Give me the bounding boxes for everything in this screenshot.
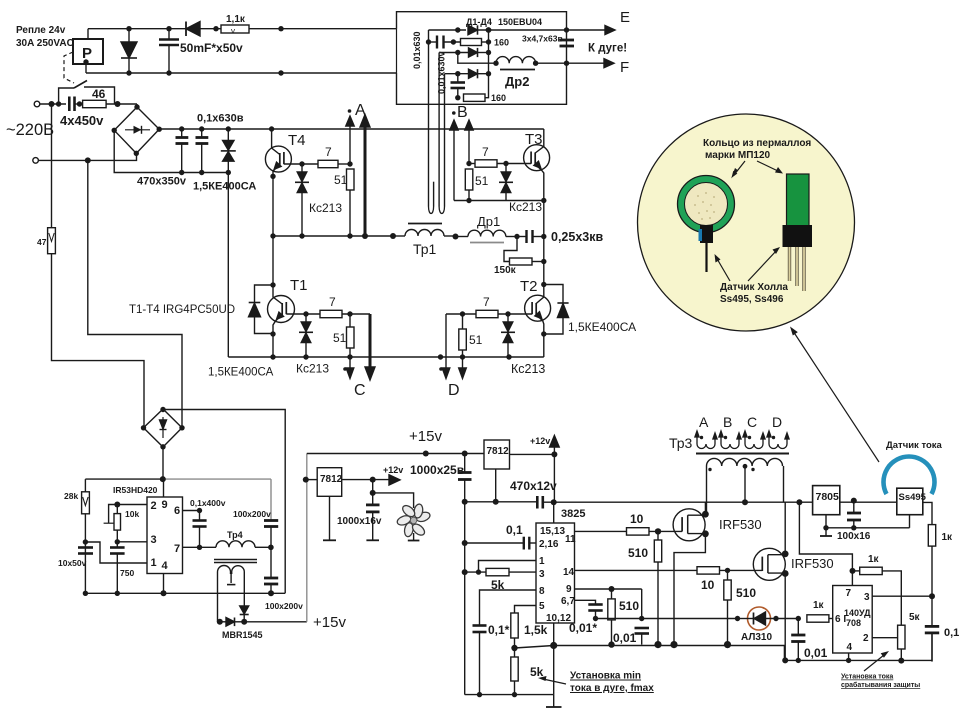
main + rail y=128.8 bbox=[159, 128, 544, 130]
svg-text:11: 11 bbox=[565, 534, 576, 545]
svg-text:Ss495: Ss495 bbox=[899, 492, 927, 503]
svg-text:D: D bbox=[772, 414, 782, 430]
svg-text:5к: 5к bbox=[909, 612, 921, 623]
pin3 wire bbox=[117, 541, 147, 543]
resistor 7 (T3) bbox=[475, 160, 497, 167]
arrow to 5к pot bbox=[864, 655, 884, 671]
inner bus to Др2 bbox=[458, 53, 496, 64]
svg-text:Репле 24v: Репле 24v bbox=[16, 25, 66, 36]
svg-text:1000x25в: 1000x25в bbox=[410, 463, 464, 477]
svg-text:0,1*: 0,1* bbox=[488, 623, 510, 637]
resistor 51 (T3) bbox=[465, 169, 473, 190]
resistor 1к #2 bbox=[860, 567, 883, 574]
7805 ground + 100x16 bbox=[825, 515, 827, 528]
wire T4 gate bbox=[284, 163, 318, 165]
dashed link relay to switch bbox=[64, 52, 74, 83]
pin 6,7 wire + capacitor 0,01* bbox=[575, 600, 596, 604]
svg-text:50mF*x50v: 50mF*x50v bbox=[180, 41, 243, 55]
svg-text:F: F bbox=[620, 59, 629, 76]
pin 9 wire bbox=[575, 588, 642, 590]
resistor 1к right column bbox=[928, 525, 935, 547]
zener pair Кс213 (T2) bbox=[507, 314, 509, 322]
label Установка min тока в дуге, fmax bbox=[570, 671, 654, 695]
wire to bridge top bbox=[136, 104, 138, 107]
node row1 bus bbox=[429, 29, 467, 31]
Ss495 output bbox=[923, 502, 932, 524]
svg-text:В: В bbox=[457, 104, 468, 121]
wire rail2 bbox=[86, 72, 397, 74]
capacitor 1000x16v bbox=[372, 480, 374, 505]
T3/T2 collector bus down bbox=[543, 201, 545, 285]
svg-text:46: 46 bbox=[92, 87, 106, 101]
svg-text:510: 510 bbox=[619, 599, 639, 613]
svg-text:14: 14 bbox=[563, 567, 575, 578]
capacitor 750 bbox=[110, 546, 125, 549]
wire rail1 top bbox=[88, 28, 397, 30]
pin 15,13 wire bbox=[553, 502, 555, 523]
capacitor 100x200v lower bbox=[270, 547, 272, 577]
svg-text:9: 9 bbox=[566, 584, 572, 595]
bottom rail of 3825 bbox=[465, 694, 554, 696]
hall sensor on ring bbox=[700, 225, 713, 243]
svg-text:1к: 1к bbox=[813, 600, 825, 611]
transformer Tp4 primary bbox=[216, 541, 255, 547]
bottom rail B bbox=[784, 633, 932, 661]
capacitor 10x50v bbox=[78, 546, 93, 549]
svg-text:Датчик Холла: Датчик Холла bbox=[720, 282, 788, 293]
label relay "Репле 24v 30A 250VAC" bbox=[16, 25, 74, 49]
svg-text:1,1к: 1,1к bbox=[226, 14, 246, 25]
svg-text:100x200v: 100x200v bbox=[265, 601, 303, 611]
capacitor 470x12v (series) bbox=[536, 496, 539, 509]
wire to fan bbox=[373, 493, 414, 508]
IR53 bottom rail bbox=[85, 592, 285, 594]
capacitor 3x4,7x63в on right edge bbox=[560, 39, 575, 42]
svg-text:2: 2 bbox=[863, 633, 869, 644]
diode Д2 bbox=[469, 48, 478, 57]
resistor 7 (T1) bbox=[320, 310, 342, 317]
pin2 wire + pot 10k bbox=[117, 504, 147, 506]
resistor 510 #3 bbox=[727, 570, 729, 580]
svg-text:Кс213: Кс213 bbox=[509, 200, 542, 214]
svg-text:марки МП120: марки МП120 bbox=[705, 150, 771, 161]
transistor IRF530 #2 bbox=[753, 548, 785, 580]
transformer Tp4 secondary bbox=[218, 566, 231, 622]
svg-text:0,1: 0,1 bbox=[506, 523, 523, 537]
capacitor 0,25x3кв bbox=[517, 236, 526, 238]
svg-text:АЛ310: АЛ310 bbox=[741, 632, 772, 643]
svg-text:0,01x630: 0,01x630 bbox=[412, 31, 422, 69]
svg-text:Установка тока: Установка тока bbox=[841, 674, 893, 681]
svg-text:51: 51 bbox=[469, 333, 483, 347]
pin 14 wire bbox=[575, 569, 698, 571]
svg-text:0,25x3кв: 0,25x3кв bbox=[551, 230, 603, 244]
svg-text:510: 510 bbox=[628, 546, 648, 560]
svg-text:MBR1545: MBR1545 bbox=[222, 630, 263, 640]
svg-text:7: 7 bbox=[483, 295, 490, 309]
svg-text:51: 51 bbox=[475, 174, 489, 188]
bottom rail (minus bus) bbox=[228, 356, 544, 358]
svg-text:15,13: 15,13 bbox=[540, 526, 565, 537]
resistor 160 row2 bbox=[461, 39, 482, 46]
capacitor 100x16 bbox=[851, 498, 857, 504]
svg-text:0,01: 0,01 bbox=[613, 631, 637, 645]
resistor 10 #2 bbox=[697, 567, 720, 574]
svg-text:Т2: Т2 bbox=[520, 278, 538, 295]
switch S1 bypass bbox=[59, 88, 74, 104]
svg-text:7: 7 bbox=[846, 588, 852, 599]
svg-text:+15v: +15v bbox=[409, 428, 442, 445]
diode D relay flyback bbox=[128, 29, 130, 42]
arrow to ring lead bbox=[716, 257, 730, 281]
transistor T2 (IGBT) bbox=[525, 295, 551, 321]
svg-text:708: 708 bbox=[846, 618, 861, 628]
resistor 1,1к (varistor box) bbox=[221, 25, 249, 33]
svg-text:6,7: 6,7 bbox=[561, 596, 575, 607]
TVS 1,5KE400CA input bbox=[227, 129, 229, 141]
bridge rectifier VD1 (diamond) bbox=[114, 107, 159, 153]
node B arrows bbox=[452, 111, 456, 115]
svg-text:0,01: 0,01 bbox=[804, 646, 828, 660]
arrow to 5k bbox=[543, 679, 566, 684]
svg-text:10: 10 bbox=[701, 578, 715, 592]
mid rail upper-left (T4 emitter bus) bbox=[273, 235, 393, 237]
svg-text:7812: 7812 bbox=[320, 474, 343, 485]
label Д1-Д4 150EBU04 bbox=[466, 17, 542, 27]
capacitor 50mF*x50v bbox=[168, 29, 170, 40]
Тр3 secondary winding C bbox=[745, 434, 763, 449]
svg-text:150EBU04: 150EBU04 bbox=[498, 17, 542, 27]
+12 rail bbox=[465, 501, 536, 503]
wire pin9 down bbox=[641, 589, 643, 619]
svg-text:D: D bbox=[448, 382, 460, 399]
label Кольцо из пермаллоя марки МП120 bbox=[703, 138, 811, 161]
big callout circle (permalloy ring + hall sensor) bbox=[638, 114, 855, 331]
svg-text:7: 7 bbox=[482, 145, 489, 159]
svg-text:7: 7 bbox=[329, 295, 336, 309]
arrow to ring bbox=[734, 161, 745, 175]
ground bbox=[553, 695, 555, 707]
wire bridge2 bottom to IR53 rail bbox=[162, 447, 164, 479]
transistor IRF530 #1 bbox=[673, 509, 705, 541]
svg-text:Тр3: Тр3 bbox=[669, 435, 693, 451]
svg-text:Установка min: Установка min bbox=[570, 671, 641, 682]
svg-text:10k: 10k bbox=[125, 509, 139, 519]
node D arrows bbox=[445, 314, 447, 371]
node A thin arrow bbox=[349, 123, 351, 164]
output F arrow bbox=[567, 62, 605, 64]
label Датчик Холла Ss495, Ss496 bbox=[720, 282, 788, 305]
svg-text:1,5КЕ400СА: 1,5КЕ400СА bbox=[208, 367, 274, 379]
node row4 bbox=[445, 73, 469, 75]
svg-text:3: 3 bbox=[864, 592, 870, 603]
label Установка тока срабатывания защиты bbox=[841, 674, 920, 690]
svg-text:28k: 28k bbox=[64, 491, 78, 501]
arrow to green stick bbox=[757, 161, 780, 172]
svg-text:~220В: ~220В bbox=[6, 121, 54, 139]
svg-text:B: B bbox=[723, 414, 732, 430]
regulator 7812 #1 bbox=[317, 468, 342, 497]
pin 4 wire down bbox=[848, 653, 850, 660]
svg-text:1000x16v: 1000x16v bbox=[337, 516, 382, 527]
svg-text:100x16: 100x16 bbox=[837, 531, 871, 542]
capacitor 470x350v #1 bbox=[181, 129, 183, 138]
svg-text:2: 2 bbox=[151, 500, 157, 512]
svg-text:Тр1: Тр1 bbox=[413, 241, 437, 257]
svg-text:10x50v: 10x50v bbox=[58, 558, 87, 568]
svg-text:Кольцо из пермаллоя: Кольцо из пермаллоя bbox=[703, 138, 811, 149]
sensor Ss495 box bbox=[897, 488, 923, 515]
node row3 bbox=[439, 52, 468, 54]
output E arrow bbox=[567, 29, 606, 31]
svg-text:+12v: +12v bbox=[530, 436, 550, 446]
resistor 47 bbox=[48, 228, 56, 254]
svg-text:К дуге!: К дуге! bbox=[588, 43, 627, 55]
resistor 51 (T1) bbox=[347, 327, 355, 348]
bottom rail A bbox=[554, 646, 785, 661]
bridge rectifier VD2 small bbox=[144, 409, 183, 447]
capacitor 470x350v #2 bbox=[201, 129, 203, 138]
T3 gate network: rail bbox=[454, 200, 544, 202]
resistor 5k lower bbox=[511, 657, 518, 681]
diode vertical (Tp4) bbox=[240, 606, 249, 614]
regulator 7812 #2 bbox=[484, 440, 510, 469]
right bus bbox=[488, 30, 490, 74]
transformer Тр1 primary winding bbox=[393, 235, 405, 237]
svg-text:1,5k: 1,5k bbox=[524, 623, 548, 637]
+12v output arrow bbox=[342, 479, 390, 481]
Тр3 secondary winding A bbox=[697, 434, 715, 449]
fan bbox=[396, 503, 431, 537]
svg-text:10: 10 bbox=[630, 512, 644, 526]
svg-text:1к: 1к bbox=[868, 554, 880, 565]
minus bus down the left bbox=[227, 173, 229, 358]
minus rail below bridge bbox=[114, 130, 228, 172]
svg-text:10,12: 10,12 bbox=[546, 613, 571, 624]
svg-text:47: 47 bbox=[37, 237, 47, 247]
LED АЛ310 bbox=[748, 607, 771, 630]
inductor Др1 bbox=[456, 236, 469, 238]
wire 220V line1 down bbox=[51, 104, 53, 228]
pin9 wire up bbox=[163, 479, 165, 497]
svg-text:750: 750 bbox=[120, 568, 134, 578]
svg-text:E: E bbox=[620, 9, 630, 26]
+15v wire from MBR bbox=[244, 621, 307, 623]
zener pair Кс213 (T3) bbox=[505, 164, 507, 173]
svg-text:3x4,7x63в: 3x4,7x63в bbox=[522, 34, 563, 44]
pin 11 wire + resistor 10 bbox=[575, 530, 627, 532]
svg-text:5k: 5k bbox=[530, 665, 544, 679]
svg-text:6: 6 bbox=[174, 505, 180, 517]
wire to LED row bbox=[596, 618, 738, 620]
zener pair Кс213 (T1) bbox=[305, 314, 307, 322]
svg-text:v: v bbox=[231, 27, 235, 36]
svg-text:1,5КЕ400СА: 1,5КЕ400СА bbox=[193, 181, 256, 193]
IRF530#1 source wire bbox=[674, 534, 705, 645]
capacitor 0,01 #2 bbox=[797, 619, 799, 635]
TVS 1,5KE400CA (T2) bbox=[544, 285, 563, 304]
pin 10,12 down bbox=[553, 623, 555, 695]
svg-text:150к: 150к bbox=[494, 265, 517, 276]
resistor 7 (T2) bbox=[476, 310, 498, 317]
pin 8 wire + capacitor 0,1* bbox=[480, 590, 537, 626]
svg-text:3: 3 bbox=[151, 534, 157, 546]
svg-text:51: 51 bbox=[334, 173, 348, 187]
capacitor 4x450v bbox=[68, 97, 71, 112]
svg-text:IRF530: IRF530 bbox=[719, 517, 762, 532]
wire relay top to rail1 bbox=[87, 29, 89, 39]
arrow to package bbox=[748, 250, 777, 281]
resistor 510 #2 bbox=[611, 589, 613, 599]
long arrow from sensor area to circle bbox=[793, 331, 879, 462]
resistor 51 (T4) bbox=[347, 169, 355, 190]
7812#1 ground bbox=[329, 496, 331, 540]
svg-text:1: 1 bbox=[151, 557, 157, 569]
svg-text:Т4: Т4 bbox=[288, 132, 306, 149]
svg-text:0,1x400v: 0,1x400v bbox=[190, 498, 226, 508]
svg-text:4x450v: 4x450v bbox=[60, 113, 104, 128]
Тр3 secondary winding D bbox=[769, 434, 787, 449]
resistor 1,5k bbox=[511, 613, 518, 638]
svg-text:+15v: +15v bbox=[313, 614, 346, 631]
pin 1 wire bbox=[479, 561, 537, 573]
op-amp 140УД708 box bbox=[833, 586, 873, 654]
capacitor 1000x25в bbox=[464, 454, 466, 473]
svg-text:140УД: 140УД bbox=[844, 608, 871, 618]
svg-text:Др2: Др2 bbox=[505, 74, 529, 89]
wire 220V line2 down bbox=[88, 160, 182, 427]
green stick (sensor in package) bbox=[787, 174, 810, 242]
transistor T3 (IGBT) bbox=[524, 145, 550, 171]
svg-text:51: 51 bbox=[333, 331, 347, 345]
node C thick arrow bbox=[369, 314, 372, 370]
relay K1 box P bbox=[73, 39, 103, 64]
svg-text:3825: 3825 bbox=[561, 508, 585, 520]
Тр3 primary bbox=[707, 458, 783, 466]
svg-text:Др1: Др1 bbox=[477, 214, 500, 229]
svg-text:срабатывания защиты: срабатывания защиты bbox=[841, 681, 920, 689]
pin 2,16 wire + capacitor 0,1 bbox=[530, 542, 537, 544]
transistor T1 (IGBT) bbox=[268, 296, 295, 323]
svg-text:100x200v: 100x200v bbox=[233, 509, 271, 519]
svg-text:470x350v: 470x350v bbox=[137, 176, 187, 188]
svg-text:+12v: +12v bbox=[383, 465, 403, 475]
Тр3 secondary winding B bbox=[721, 434, 739, 449]
svg-text:Кс213: Кс213 bbox=[511, 362, 545, 376]
svg-text:30A 250VAC: 30A 250VAC bbox=[16, 38, 74, 49]
diode Д3 bbox=[469, 69, 478, 78]
diode D2 series (cathode left) bbox=[186, 28, 200, 30]
terminal lower bbox=[33, 158, 39, 164]
wire down to +12 rail bbox=[553, 454, 555, 502]
wire bridge2 plus to right bbox=[163, 410, 285, 594]
+15v rail bbox=[307, 453, 484, 455]
svg-text:IR53HD420: IR53HD420 bbox=[113, 485, 158, 495]
pin 5 wire bbox=[515, 606, 537, 614]
diode Д1 bbox=[468, 25, 478, 34]
svg-text:160: 160 bbox=[494, 38, 509, 48]
resistor 46 bbox=[83, 100, 107, 107]
Тр3 primary left lead to IRF1 drain bbox=[706, 466, 708, 514]
svg-text:160: 160 bbox=[491, 93, 506, 103]
svg-text:Датчик тока: Датчик тока bbox=[886, 440, 943, 451]
T1 gate wire bbox=[286, 313, 320, 315]
svg-text:3: 3 bbox=[539, 569, 545, 580]
pin 3 wire bbox=[872, 595, 932, 597]
svg-text:7: 7 bbox=[174, 543, 180, 555]
pin7 wire bbox=[183, 546, 217, 548]
svg-text:1,5КЕ400СА: 1,5КЕ400СА bbox=[568, 320, 636, 334]
capacitor 0,01x630 row2 bbox=[429, 41, 438, 43]
pin4 wire down bbox=[163, 574, 165, 594]
svg-text:470x12v: 470x12v bbox=[510, 479, 557, 493]
svg-text:0,1x630в: 0,1x630в bbox=[197, 113, 244, 125]
resistor 5к bbox=[898, 625, 905, 649]
svg-text:Ss495, Ss496: Ss495, Ss496 bbox=[720, 294, 784, 305]
IRF530#2 drain/source vertical bbox=[784, 502, 786, 554]
wire 1,5k junction to pin10,12 node bbox=[515, 646, 554, 649]
svg-text:0,1: 0,1 bbox=[944, 627, 959, 639]
T2 gate network bbox=[446, 313, 476, 315]
terminal upper bbox=[34, 101, 40, 107]
pin 7 wire up + wire from +12 rail to pin7/1к bbox=[799, 502, 852, 585]
Тр3 core bbox=[696, 453, 789, 455]
svg-text:7812: 7812 bbox=[487, 446, 510, 457]
TVS 1,5KE400CA (T1) bbox=[255, 285, 274, 302]
svg-text:Т1-Т4 IRG4PC50UD: Т1-Т4 IRG4PC50UD bbox=[129, 304, 235, 316]
wire 28k junction to pin1 bbox=[85, 542, 147, 563]
svg-text:5: 5 bbox=[539, 601, 545, 612]
svg-text:P: P bbox=[82, 45, 92, 62]
permalloy ring (green donut) bbox=[678, 176, 735, 233]
svg-text:510: 510 bbox=[736, 586, 756, 600]
IR53 top rail bbox=[85, 478, 163, 480]
svg-text:7: 7 bbox=[325, 145, 332, 159]
svg-text:9: 9 bbox=[162, 499, 168, 511]
svg-text:8: 8 bbox=[539, 586, 545, 597]
chip IR53HD420 bbox=[147, 497, 183, 574]
resistor 7 (T4) bbox=[318, 160, 338, 167]
resistor 160 bottom bbox=[464, 94, 486, 101]
node A thick arrow bbox=[364, 124, 367, 236]
svg-text:С: С bbox=[354, 382, 366, 399]
zener pair Кс213 (T4) bbox=[301, 164, 303, 172]
svg-text:Кс213: Кс213 bbox=[309, 201, 342, 215]
svg-text:Т3: Т3 bbox=[525, 131, 543, 148]
svg-text:1к: 1к bbox=[942, 532, 954, 543]
Ss495 ground wire bbox=[909, 515, 911, 528]
pin6 wire + capacitor 0,1x400v bbox=[183, 511, 200, 521]
svg-text:7805: 7805 bbox=[816, 491, 840, 503]
svg-text:2,16: 2,16 bbox=[539, 539, 559, 550]
pin 2 wire bbox=[872, 637, 897, 639]
resistor 51 (T2) bbox=[459, 329, 467, 350]
svg-text:C: C bbox=[747, 414, 757, 430]
Тр3 right lead to IRF2 drain bbox=[783, 466, 785, 502]
capacitor row4-5 bbox=[457, 74, 459, 82]
svg-text:4: 4 bbox=[847, 642, 853, 653]
regulator 7805 bbox=[813, 486, 840, 515]
capacitor 100x200v upper bbox=[270, 479, 272, 520]
node C thin arrow bbox=[349, 357, 351, 371]
svg-text:IRF530: IRF530 bbox=[791, 556, 834, 571]
inductor Др2 bbox=[496, 57, 536, 64]
transformer primary hairpin legs bbox=[428, 30, 430, 207]
svg-text:Тр4: Тр4 bbox=[227, 530, 243, 540]
svg-text:A: A bbox=[699, 414, 709, 430]
Тр3 center tap bbox=[744, 466, 746, 502]
resistor 510 #1 bbox=[657, 531, 659, 540]
